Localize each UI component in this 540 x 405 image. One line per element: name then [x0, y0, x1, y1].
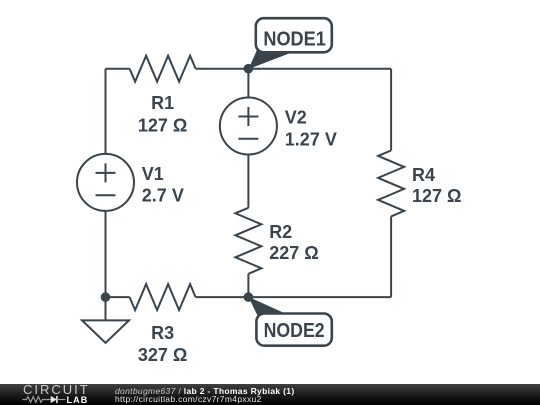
wire bottom horizontal middle — [196, 296, 249, 298]
wire middle vertical top — [247, 69, 249, 98]
node junction dot ground — [101, 292, 111, 302]
resistor R4 — [378, 150, 404, 216]
NODE1 callout box — [256, 18, 332, 52]
voltage source V1 — [77, 154, 134, 211]
logo resistor zigzag — [23, 397, 51, 403]
svg-text:V1: V1 — [142, 164, 164, 184]
wire top horizontal to right corner — [196, 68, 392, 70]
resistor R1 — [130, 56, 196, 82]
wire bottom horizontal left — [106, 296, 130, 298]
svg-text:NODE2: NODE2 — [264, 320, 325, 342]
node junction dot NODE2 — [244, 292, 254, 302]
ground stub wire — [105, 297, 107, 320]
wire top-left horizontal lead — [106, 68, 130, 70]
resistor R3 — [130, 284, 196, 310]
node junction dot NODE1 — [244, 64, 254, 74]
svg-text:V2: V2 — [285, 108, 307, 128]
CircuitLab logo LAB text — [67, 395, 89, 405]
NODE1 callout tail — [248, 47, 289, 70]
svg-text:R2: R2 — [269, 222, 292, 242]
NODE2 callout tail — [248, 297, 287, 320]
svg-text:127 Ω: 127 Ω — [138, 115, 187, 135]
svg-text:1.27 V: 1.27 V — [285, 130, 337, 150]
svg-text:R4: R4 — [412, 165, 435, 185]
svg-text:2.7 V: 2.7 V — [142, 186, 184, 206]
svg-text:R1: R1 — [151, 93, 174, 113]
svg-text:127 Ω: 127 Ω — [412, 186, 461, 206]
svg-text:327 Ω: 327 Ω — [138, 345, 187, 365]
footer url line — [115, 394, 262, 404]
CircuitLab logo symbol row — [0, 394, 100, 405]
footer bar — [0, 384, 540, 405]
svg-text:R3: R3 — [151, 323, 174, 343]
wire middle vertical between V2 and R2 — [247, 155, 249, 208]
logo diode — [51, 396, 57, 403]
wire bottom horizontal right — [248, 296, 391, 298]
footer credit line — [115, 386, 295, 396]
wire middle vertical bottom — [247, 274, 249, 297]
CircuitLab logo wordmark — [23, 382, 90, 397]
wire right vertical upper — [390, 69, 392, 151]
svg-text:227 Ω: 227 Ω — [269, 243, 318, 263]
voltage source V2 — [220, 98, 277, 155]
ground — [82, 320, 129, 343]
wire right vertical lower — [390, 216, 392, 297]
resistor R2 — [235, 208, 261, 274]
svg-text:NODE1: NODE1 — [263, 29, 326, 51]
wire left vertical lower — [105, 211, 107, 297]
NODE2 callout box — [256, 314, 331, 346]
wire left vertical upper — [105, 69, 107, 154]
